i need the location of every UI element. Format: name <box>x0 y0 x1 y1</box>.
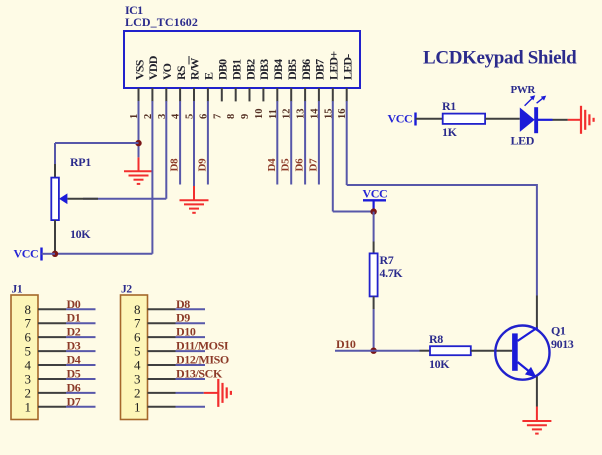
wire RP1 top to pin1 junction <box>55 142 139 144</box>
svg-text:DB0: DB0 <box>216 59 230 80</box>
IC1 pin 4 stub <box>179 88 181 101</box>
J2 pin 8 wire <box>176 308 206 310</box>
svg-text:Q1: Q1 <box>551 324 566 338</box>
power VCC (middle) stem <box>373 200 375 211</box>
junction VCC / pin15 / R7 <box>370 208 376 214</box>
svg-text:D7: D7 <box>67 394 81 408</box>
wire pin13 (net D6) <box>304 101 306 185</box>
Q1 emitter pin <box>536 377 538 407</box>
svg-text:7: 7 <box>212 114 223 119</box>
wire pin14 (net D7) <box>318 101 320 185</box>
ground symbol under pin5 <box>180 200 209 213</box>
J1 pin 6 stub <box>38 336 66 338</box>
svg-text:VSS: VSS <box>132 59 146 80</box>
svg-text:DB4: DB4 <box>271 59 285 80</box>
RP1 top pin <box>54 164 56 178</box>
LED cathode bar <box>534 107 538 133</box>
svg-text:D13/SCK: D13/SCK <box>176 366 223 380</box>
svg-text:DB7: DB7 <box>313 59 327 80</box>
wire pin16 LED- down <box>346 101 348 185</box>
svg-text:D6: D6 <box>67 380 81 394</box>
junction RP1 bottom / VCC <box>52 251 58 257</box>
wire RP1 top vertical <box>54 143 56 164</box>
IC1 pin 16 stub <box>346 88 348 101</box>
J1 pin 7 stub <box>38 322 66 324</box>
svg-text:8: 8 <box>25 302 32 317</box>
wire pin2 VDD down <box>151 101 153 254</box>
IC IC1 body (LCD TC1602) <box>124 31 360 88</box>
IC1 pin 14 stub <box>318 88 320 101</box>
IC1 pin 8 stub <box>235 88 237 101</box>
svg-text:PWR: PWR <box>511 84 537 96</box>
svg-text:RS: RS <box>174 65 188 80</box>
ground stem (J2 pin 2) <box>204 392 219 394</box>
J2 pin 5 stub <box>148 350 176 352</box>
J1 pin 8 wire <box>66 308 96 310</box>
svg-text:9013: 9013 <box>551 337 574 351</box>
J1 pin 3 stub <box>38 378 66 380</box>
svg-text:DB3: DB3 <box>257 59 271 80</box>
IC1 pin 9 stub <box>249 88 251 101</box>
J2 pin 5 wire <box>176 350 206 352</box>
wire pin12 (net D5) <box>290 101 292 185</box>
svg-text:R/W: R/W <box>188 58 202 80</box>
LED D (PWR) triangle <box>520 108 535 132</box>
resistor R1 body <box>443 114 485 124</box>
IC1 pin 3 stub <box>165 88 167 101</box>
svg-text:VDD: VDD <box>146 55 160 80</box>
svg-text:DB5: DB5 <box>285 59 299 80</box>
svg-text:8: 8 <box>134 302 141 317</box>
svg-text:RP1: RP1 <box>70 155 91 169</box>
wire D10 junction to R8 <box>374 350 420 352</box>
svg-text:D10: D10 <box>336 337 356 351</box>
Q1 base bar <box>512 333 518 370</box>
J1 pin 8 stub <box>38 308 66 310</box>
J1 pin 5 wire <box>66 350 96 352</box>
wire VCC to R1 <box>416 118 443 120</box>
J1 pin 2 wire <box>66 392 96 394</box>
svg-text:LED+: LED+ <box>327 51 341 80</box>
RP1 wiper pin <box>68 198 99 200</box>
J2 pin 1 wire <box>176 406 206 408</box>
J1 pin 4 stub <box>38 364 66 366</box>
J1 pin 2 stub <box>38 392 66 394</box>
J2 pin 3 wire <box>176 378 206 380</box>
transistor Q1 circle <box>495 326 549 380</box>
power VCC (left) bar <box>40 248 42 261</box>
J1 pin 7 wire <box>66 322 96 324</box>
J1 pin 5 stub <box>38 350 66 352</box>
svg-text:E: E <box>202 72 216 80</box>
svg-text:10K: 10K <box>70 227 91 241</box>
wire R7 to D10 junction <box>373 309 375 351</box>
connector J2 body <box>121 295 148 420</box>
PWR arrow 1 <box>525 99 532 106</box>
svg-text:D3: D3 <box>67 339 81 353</box>
ground symbol under pin1 <box>124 171 153 184</box>
wire D10 stub <box>335 350 374 352</box>
svg-text:LED: LED <box>511 134 535 148</box>
svg-text:D11/MOSI: D11/MOSI <box>176 339 229 353</box>
wire pin2 left to VCC junction <box>55 253 152 255</box>
svg-text:3: 3 <box>134 371 141 386</box>
LED cathode lead blue <box>538 119 553 121</box>
svg-text:4: 4 <box>25 358 32 373</box>
resistor R8 body <box>430 346 471 355</box>
svg-text:9: 9 <box>240 114 251 119</box>
svg-text:D2: D2 <box>67 325 81 339</box>
svg-text:D4: D4 <box>266 158 278 172</box>
svg-text:10K: 10K <box>429 357 450 371</box>
junction pin1/RP1 top <box>135 140 141 146</box>
svg-text:D5: D5 <box>67 366 81 380</box>
J1 pin 6 wire <box>66 336 96 338</box>
svg-text:DB2: DB2 <box>243 59 257 80</box>
power VCC (middle) bar <box>363 199 386 201</box>
svg-text:D0: D0 <box>67 297 81 311</box>
wire pin15 right to VCC junction <box>333 211 374 213</box>
IC1 pin 7 stub <box>221 88 223 101</box>
J2 pin 2 stub <box>148 392 176 394</box>
svg-text:D12/MISO: D12/MISO <box>176 353 229 367</box>
svg-text:8: 8 <box>226 114 237 119</box>
svg-text:4.7K: 4.7K <box>380 266 404 280</box>
svg-text:D7: D7 <box>307 158 319 172</box>
svg-text:DB6: DB6 <box>299 59 313 80</box>
J2 pin 4 stub <box>148 364 176 366</box>
svg-text:3: 3 <box>25 371 32 386</box>
svg-text:6: 6 <box>134 330 141 345</box>
svg-text:VCC: VCC <box>14 247 39 261</box>
svg-text:D9: D9 <box>176 311 190 325</box>
wire pin1 VSS down to junction/gnd <box>138 101 140 157</box>
ground symbol under Q1 <box>522 421 551 434</box>
J2 pin 6 stub <box>148 336 176 338</box>
svg-text:LCD_TC1602: LCD_TC1602 <box>125 15 198 29</box>
svg-text:R1: R1 <box>442 99 456 113</box>
wire R1 to LED anode <box>485 118 520 120</box>
RP1 bottom pin <box>54 220 56 252</box>
J1 pin 1 stub <box>38 406 66 408</box>
R8 left pin <box>420 350 431 352</box>
svg-text:5: 5 <box>25 344 32 359</box>
wire pin15 LED+ down <box>332 101 334 212</box>
RP1 wiper arrow <box>59 193 67 204</box>
J1 pin 3 wire <box>66 378 96 380</box>
power ground symbol (J2, sideways) <box>218 379 231 407</box>
R7 top pin <box>373 242 375 254</box>
IC1 pin 15 stub <box>332 88 334 101</box>
svg-text:D8: D8 <box>176 297 190 311</box>
svg-text:VCC: VCC <box>363 186 388 200</box>
power ground symbol (LED, sideways) <box>581 106 594 134</box>
J2 pin 1 stub <box>148 406 176 408</box>
J2 pin 4 wire <box>176 364 206 366</box>
svg-text:D9: D9 <box>196 158 208 172</box>
IC1 pin 2 stub <box>151 88 153 101</box>
wire down to Q1 collector <box>536 184 538 296</box>
J1 pin 4 wire <box>66 364 96 366</box>
J2 pin 8 stub <box>148 308 176 310</box>
R7 bottom pin <box>373 296 375 309</box>
IC1 pin 12 stub <box>290 88 292 101</box>
svg-text:D10: D10 <box>176 325 196 339</box>
ground stem at pin1 <box>138 157 140 171</box>
J2 pin 6 wire <box>176 336 206 338</box>
svg-text:LED-: LED- <box>341 54 355 80</box>
IC1 pin 5 stub <box>193 88 195 101</box>
resistor R7 body <box>370 253 378 296</box>
svg-text:5: 5 <box>134 344 141 359</box>
svg-text:D1: D1 <box>67 311 81 325</box>
J1 pin 1 wire <box>66 406 96 408</box>
wire pin16 right toward Q1 collector <box>347 184 537 186</box>
svg-text:10: 10 <box>254 109 265 120</box>
svg-text:J2: J2 <box>121 284 132 296</box>
connector J1 body <box>11 295 38 420</box>
potentiometer RP1 body <box>51 178 59 221</box>
PWR arrow 2 <box>537 98 543 103</box>
IC1 pin 13 stub <box>304 88 306 101</box>
wire VCC junction down <box>373 212 375 242</box>
wire pin4 RS (net D8) <box>179 101 181 185</box>
svg-text:VCC: VCC <box>388 111 413 125</box>
svg-text:1K: 1K <box>442 125 458 139</box>
IC1 pin 6 stub <box>207 88 209 101</box>
Q1 collector pin <box>536 296 538 330</box>
power VCC (R1) bar <box>414 113 416 126</box>
ground stem (LED) <box>568 119 581 121</box>
svg-text:D8: D8 <box>169 158 181 172</box>
wire VCC bar to junction <box>42 253 56 255</box>
wire pin6 E (net D9) <box>207 101 209 185</box>
Q1 emitter arrowhead <box>525 367 537 378</box>
svg-text:2: 2 <box>134 385 141 400</box>
svg-text:D6: D6 <box>294 158 306 172</box>
ground stem at Q1 emitter <box>536 407 538 422</box>
wire LED to ground <box>553 119 568 121</box>
svg-text:4: 4 <box>134 358 141 373</box>
svg-text:7: 7 <box>134 316 141 331</box>
svg-text:1: 1 <box>134 399 141 414</box>
ground stem at pin5 <box>193 186 195 200</box>
J2 pin 2 wire to ground <box>176 392 204 394</box>
svg-text:1: 1 <box>25 399 32 414</box>
wire pin3 VO down <box>165 101 167 199</box>
J2 pin 7 stub <box>148 322 176 324</box>
wire pin11 (net D4) <box>276 101 278 185</box>
svg-text:LCDKeypad Shield: LCDKeypad Shield <box>423 48 577 69</box>
IC1 pin 10 stub <box>262 88 264 101</box>
J2 pin 3 stub <box>148 378 176 380</box>
svg-text:J1: J1 <box>12 284 23 296</box>
wire RP1 wiper to pin3 <box>83 198 166 200</box>
svg-text:R8: R8 <box>429 332 443 346</box>
junction D10/R7/R8 <box>370 348 376 354</box>
svg-text:D4: D4 <box>67 353 81 367</box>
svg-text:7: 7 <box>25 316 32 331</box>
svg-text:D5: D5 <box>280 158 292 172</box>
svg-text:VO: VO <box>160 63 174 80</box>
Q1 collector lead <box>518 328 538 342</box>
svg-text:DB1: DB1 <box>230 59 244 80</box>
J2 pin 7 wire <box>176 322 206 324</box>
svg-text:R7: R7 <box>380 253 394 267</box>
IC1 pin 1 stub <box>138 88 140 101</box>
svg-text:6: 6 <box>25 330 32 345</box>
IC1 pin 11 stub <box>276 88 278 101</box>
svg-text:2: 2 <box>25 385 32 400</box>
R8 right pin / Q1 base pin <box>471 350 512 352</box>
Q1 emitter lead <box>518 362 533 374</box>
IC1 pin name R/W <box>188 56 202 80</box>
wire pin5 R/W down to gnd <box>193 101 195 186</box>
